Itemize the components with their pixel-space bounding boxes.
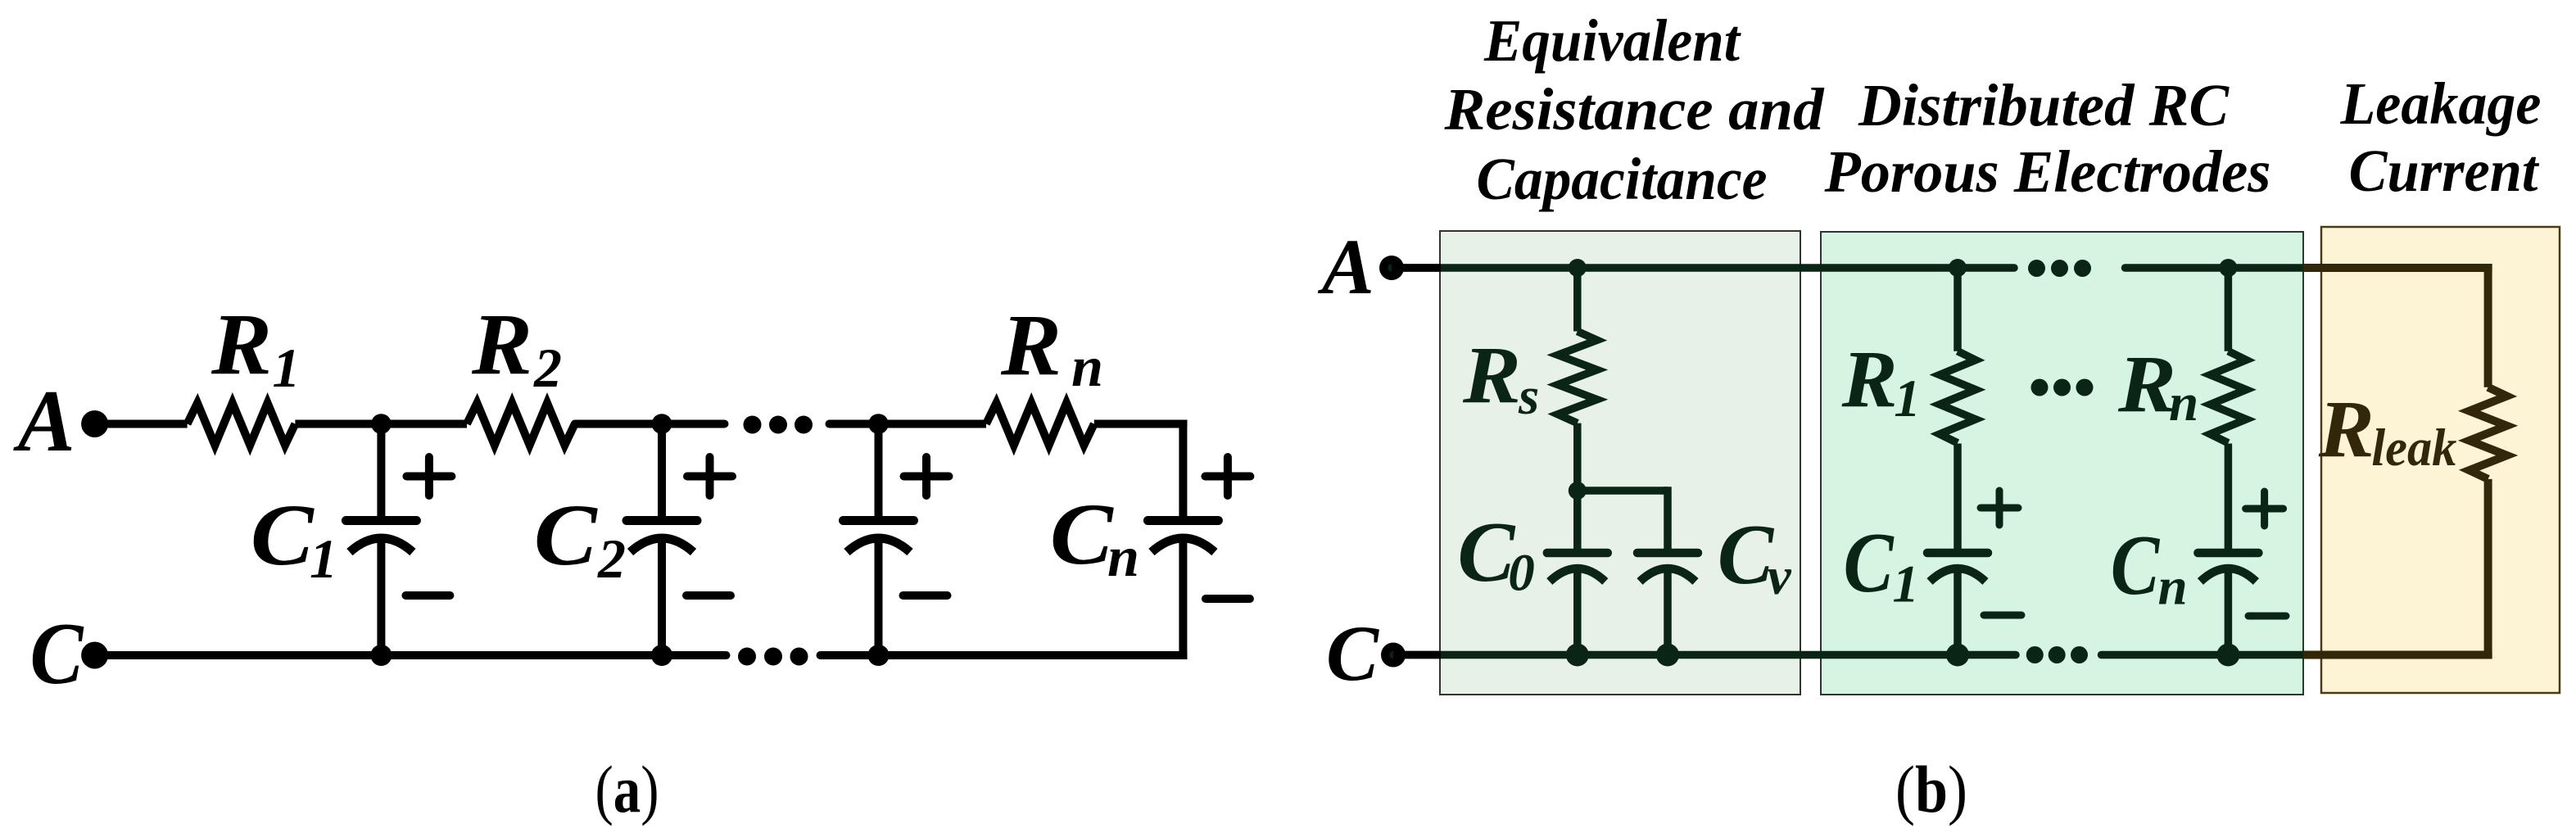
svg-text:Porous Electrodes: Porous Electrodes <box>1824 138 2271 205</box>
capacitor C0 label <box>1457 504 1534 603</box>
svg-text:1: 1 <box>1894 369 1921 428</box>
svg-text:R: R <box>1462 329 1521 420</box>
svg-text:n: n <box>1071 336 1103 399</box>
svg-text:C: C <box>1050 487 1115 583</box>
svg-text:n: n <box>1107 526 1139 589</box>
resistor R1 <box>188 403 296 446</box>
caption (a) <box>595 752 659 826</box>
wire top rail to leakage corner <box>2303 264 2492 272</box>
svg-text:R: R <box>2318 383 2375 474</box>
node Rs top junction dot <box>1569 259 1587 277</box>
resistor R2 <box>467 403 575 446</box>
svg-text:1: 1 <box>1892 555 1919 613</box>
wire Rs to mid node <box>1573 423 1582 491</box>
resistor Rleak label <box>2318 383 2457 478</box>
node Rn top junction dot b <box>2219 259 2237 277</box>
node Cn bottom junction dot b <box>2216 644 2239 667</box>
capacitor Cv label <box>1718 506 1792 606</box>
svg-text:n: n <box>2158 558 2188 617</box>
box distributed RC porous electrodes <box>1821 232 2303 695</box>
node Rs C0 Cv junction dot <box>1569 482 1587 500</box>
svg-text:2: 2 <box>597 527 626 590</box>
wire Cv to bottom rail <box>1664 567 1672 655</box>
capacitor Cn label <box>1050 487 1139 589</box>
resistor Rn label b <box>2117 338 2198 432</box>
wire Rn to Cn b <box>2225 444 2233 554</box>
ellipsis bottom wire <box>738 648 808 666</box>
wire C1 to bottom rail b <box>1954 567 1962 655</box>
node 1 junction dot <box>371 414 392 434</box>
capacitor C1 label b <box>1844 514 1919 613</box>
capacitor Cn plus sign b <box>2246 491 2284 526</box>
wire bottom rail left <box>95 651 727 659</box>
resistor Rn b <box>2210 351 2246 443</box>
svg-text:1: 1 <box>273 337 301 399</box>
capacitor C3 minus sign <box>903 591 948 600</box>
node C terminal label <box>30 605 85 703</box>
wire top rail to Rn b <box>2225 268 2233 351</box>
resistor Rn <box>986 403 1094 446</box>
svg-text:n: n <box>2169 373 2198 432</box>
capacitor Cv symbol <box>1637 553 1698 582</box>
wire capacitor C3 to bottom rail <box>875 534 883 655</box>
svg-text:A: A <box>13 373 75 470</box>
capacitor C1 minus sign <box>405 591 450 600</box>
node C terminal dot b <box>1381 643 1406 668</box>
resistor R1 label <box>211 297 301 399</box>
svg-text:A: A <box>1318 223 1374 310</box>
capacitor C3 plus sign <box>904 457 949 496</box>
capacitor C2 symbol <box>627 521 697 553</box>
svg-text:C: C <box>1844 514 1895 610</box>
wire leakage vertical bottom <box>2484 479 2492 659</box>
resistor R1 b <box>1940 351 1976 443</box>
ellipsis top wire <box>744 416 813 434</box>
node A terminal dot <box>81 410 108 437</box>
svg-text:(b): (b) <box>1895 752 1967 826</box>
wire R1 to C1 b <box>1954 444 1962 554</box>
ellipsis middle b <box>2031 379 2094 396</box>
wire bottom rail leakage <box>2303 651 2492 659</box>
header equivalent resistance and capacitance <box>1443 7 1825 212</box>
svg-text:0: 0 <box>1508 544 1535 603</box>
ellipsis top rail b <box>2028 260 2091 277</box>
svg-text:Distributed RC: Distributed RC <box>1858 72 2230 138</box>
wire R1 to R2 <box>295 420 467 428</box>
resistor Rleak <box>2470 387 2507 479</box>
node Cv bottom junction dot <box>1656 644 1679 667</box>
svg-text:1: 1 <box>310 527 337 590</box>
wire R2 to ellipsis <box>575 420 725 428</box>
svg-text:leak: leak <box>2371 419 2456 478</box>
resistor Rs <box>1558 332 1597 423</box>
wire mid node to Cv branch <box>1578 487 1668 553</box>
resistor R1 label b <box>1841 333 1921 428</box>
svg-text:C: C <box>2111 517 2161 613</box>
wire top rail to Rs <box>1573 268 1582 332</box>
svg-text:R: R <box>1841 333 1898 424</box>
svg-text:s: s <box>1518 367 1539 426</box>
node 2 bottom junction dot <box>651 645 672 666</box>
caption (b) <box>1895 752 1967 826</box>
ellipsis bottom rail b <box>2026 646 2088 663</box>
node C terminal label b <box>1326 609 1379 697</box>
capacitor Cn label b <box>2111 517 2188 617</box>
wire Rn to corner <box>1094 420 1188 428</box>
capacitor C1 symbol b <box>1927 553 1988 582</box>
svg-text:Resistance and: Resistance and <box>1443 76 1825 143</box>
box equivalent resistance and capacitance <box>1440 231 1800 695</box>
svg-text:2: 2 <box>533 337 562 399</box>
capacitor C1 symbol <box>346 521 416 553</box>
capacitor C2 minus sign <box>686 591 731 600</box>
wire capacitor C2 to bottom rail <box>658 534 666 655</box>
wire ellipsis to Rn <box>830 420 987 428</box>
capacitor C1 plus sign b <box>1981 491 2018 525</box>
svg-text:v: v <box>1768 547 1792 606</box>
node A terminal label b <box>1318 223 1374 310</box>
resistor Rn label <box>1000 297 1103 399</box>
capacitor C2 label <box>534 487 626 590</box>
wire capacitor Cn to bottom rail <box>1179 534 1187 659</box>
svg-text:R: R <box>2117 338 2176 429</box>
capacitor Cn symbol b <box>2198 553 2258 582</box>
wire node 3 down to capacitor <box>875 424 883 521</box>
node C terminal dot <box>81 642 108 669</box>
node R1 top junction dot b <box>1949 259 1967 277</box>
svg-text:C: C <box>534 487 599 584</box>
svg-text:C: C <box>251 487 315 584</box>
wire bottom rail b left <box>1393 651 2016 659</box>
resistor R2 label <box>471 297 562 399</box>
node 3 bottom junction dot <box>868 645 890 666</box>
header distributed RC porous electrodes <box>1824 72 2271 205</box>
capacitor Cn plus sign <box>1205 457 1250 496</box>
svg-text:R: R <box>1000 297 1062 394</box>
wire Cn to bottom rail b <box>2225 567 2233 655</box>
wire node 2 down to capacitor <box>658 424 666 521</box>
wire top rail b right <box>2126 264 2304 272</box>
svg-text:C: C <box>1326 609 1379 697</box>
capacitor C2 plus sign <box>687 457 732 496</box>
svg-text:Leakage: Leakage <box>2340 70 2542 137</box>
capacitor Cn minus sign <box>1206 595 1250 603</box>
node C0 bottom junction dot <box>1566 644 1589 667</box>
wire leakage vertical top <box>2484 264 2492 387</box>
svg-text:(a): (a) <box>595 752 659 826</box>
svg-text:R: R <box>471 297 532 393</box>
header leakage current <box>2340 70 2542 204</box>
node A terminal dot b <box>1379 256 1404 280</box>
svg-text:C: C <box>30 605 85 703</box>
wire top rail to R1 b <box>1954 268 1962 351</box>
capacitor C3 symbol <box>844 521 914 553</box>
resistor Rs label <box>1462 329 1539 426</box>
capacitor C1 plus sign <box>406 457 451 496</box>
wire top rail b left <box>1392 264 2014 272</box>
wire capacitor C1 to bottom rail <box>377 534 385 655</box>
wire right edge vertical <box>1179 420 1187 521</box>
capacitor Cn symbol <box>1148 521 1218 553</box>
capacitor C1 minus sign b <box>1984 612 2021 619</box>
wire bottom rail b right <box>2102 651 2304 659</box>
svg-text:C: C <box>1718 506 1775 602</box>
capacitor C0 symbol <box>1547 553 1608 582</box>
node A terminal label <box>13 373 75 470</box>
svg-text:R: R <box>211 297 272 393</box>
capacitor Cn minus sign b <box>2248 613 2286 620</box>
node 3 junction dot <box>868 414 889 434</box>
node 1 bottom junction dot <box>370 645 392 666</box>
wire C0 to bottom rail <box>1573 567 1582 655</box>
node 2 junction dot <box>652 414 672 434</box>
wire mid node to C0 <box>1573 491 1582 553</box>
box leakage current <box>2321 227 2560 693</box>
node C1 bottom junction dot b <box>1946 644 1969 667</box>
svg-text:Equivalent: Equivalent <box>1483 7 1742 74</box>
wire A to R1 <box>95 420 188 428</box>
wire node 1 down to capacitor <box>377 424 385 521</box>
svg-text:Capacitance: Capacitance <box>1477 146 1768 212</box>
wire bottom rail right <box>821 651 1188 659</box>
capacitor C1 label <box>251 487 337 590</box>
svg-text:Current: Current <box>2349 138 2541 204</box>
